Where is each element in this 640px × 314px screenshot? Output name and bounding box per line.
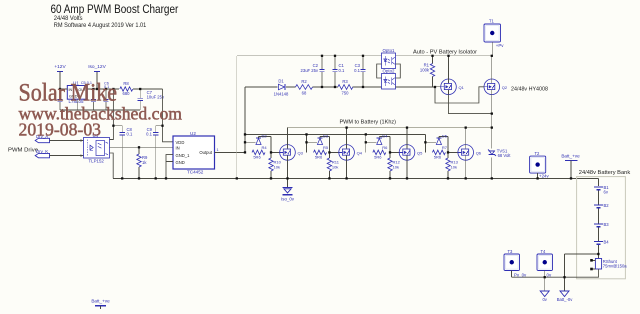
ground rail iso [60,109,140,111]
resistor R2 68 [296,79,313,96]
wire isolator output vertical [491,56,493,79]
wire source Q5 [406,160,408,178]
wire opto right loop [396,64,401,78]
svg-text:2019-08-03: 2019-08-03 [19,120,102,140]
resistor R12 10k [388,152,401,178]
gate network diode D3 [307,133,330,152]
ground Iso_0v [281,178,295,201]
ground Batt_-0v [557,254,574,302]
svg-text:Batt_+ve: Batt_+ve [91,299,110,304]
svg-text:5R6: 5R6 [434,154,442,159]
resistor R8 680 [119,86,133,92]
svg-text:100k: 100k [420,68,430,73]
resistor R7 5R6 [432,145,447,160]
wire drain bus [287,128,289,145]
resistor R3 750 [338,79,353,96]
svg-text:D3: D3 [323,133,329,138]
svg-text:75mv@150a: 75mv@150a [603,264,627,269]
wire TLP output to U2 IN [110,146,174,148]
terminal T2 +24v [530,151,550,178]
svg-text:R8: R8 [123,81,129,86]
svg-text:24/48v HY4008: 24/48v HY4008 [511,87,549,93]
svg-text:Opto1: Opto1 [383,48,396,53]
shunt RShunt 75mv@150a [590,259,627,271]
resistor R11 10k [327,152,340,178]
wire battery to shunt [598,245,600,259]
svg-text:R3: R3 [342,79,348,84]
svg-text:T1: T1 [489,19,495,24]
battery cell B4 [594,240,609,245]
svg-text:68: 68 [302,91,307,96]
svg-text:T4: T4 [541,249,547,254]
svg-text:60 Amp PWM Boost Charger: 60 Amp PWM Boost Charger [51,2,179,16]
wire drain Q5 [406,128,408,145]
gate network diode D5 [425,133,448,152]
svg-text:TLP152: TLP152 [89,158,105,163]
svg-text:U2: U2 [190,131,196,136]
connector Drv_A [35,134,49,143]
capacitor C1 0.1 [332,56,345,87]
transistor Q6 [458,145,482,161]
svg-text:RM Software 4 August 2019 Ver: RM Software 4 August 2019 Ver 1.01 [54,22,147,29]
wire gate lead Q3 [271,151,280,153]
svg-text:68 Volt: 68 Volt [498,153,512,158]
gate driver U2 TC4452 [173,131,219,175]
wire U1 input [60,88,67,90]
optocoupler U4 TLP152 [84,133,110,164]
wire gate lead Q4 [329,151,338,153]
svg-text:Output: Output [199,150,212,155]
TVS1 68 Volt [488,148,511,158]
wire drain Q6 [465,128,467,145]
svg-text:Q3: Q3 [298,151,304,156]
resistor R10 10k [269,152,282,178]
svg-text:B4: B4 [604,240,610,245]
svg-text:0v: 0v [547,273,552,278]
svg-text:Iso_12V: Iso_12V [88,64,106,70]
svg-text:10k: 10k [451,165,457,170]
svg-text:1: 1 [217,148,219,152]
wire top rail [237,55,492,57]
resistor R9 1k [137,147,148,178]
svg-text:+Pv: +Pv [496,43,504,48]
terminal T4 0v [537,249,553,278]
wire charge pump vertical [244,87,246,152]
svg-text:Auto - PV Battery Isolator: Auto - PV Battery Isolator [413,50,477,56]
wire gate lead Q6 [448,151,458,153]
wire gate lead Q5 [390,151,399,153]
svg-text:680: 680 [123,91,131,96]
wire left return vertical [236,56,238,179]
svg-text:D4: D4 [382,133,388,138]
capacitor C3 0.1 [354,56,365,87]
wire T1 to rail [491,42,493,56]
optocoupler Opto2 [382,69,396,90]
ground 0v under T4 [540,277,549,302]
resistor R6 5R6 [373,145,388,160]
svg-text:R5: R5 [323,145,329,150]
capacitor C2 23uF [301,56,325,87]
svg-text:PWM to Battery (1Khz): PWM to Battery (1Khz) [340,120,397,126]
battery cell B3 [594,222,609,227]
resistor R13 10k [446,152,459,178]
svg-text:+24v: +24v [539,174,549,179]
svg-text:0.1: 0.1 [127,132,133,137]
svg-text:Opto2: Opto2 [383,69,396,74]
wire rail 87 [245,86,278,88]
wire U1 output rail [87,88,162,90]
wire gate bus [245,133,425,135]
resistor R5 5R6 [314,145,329,160]
regulator U1 L78L05 [67,81,87,105]
wire VDD cap link [113,125,122,127]
wire battery string top [598,178,600,185]
transistor Q5 [399,145,423,161]
wire source Q6 [465,160,467,178]
svg-text:Q1: Q1 [459,85,465,90]
svg-text:10k: 10k [332,165,338,170]
svg-text:B2: B2 [604,203,610,208]
wire bottom bus [113,177,598,179]
wire VDD feed down [163,89,174,142]
svg-text:R6: R6 [382,145,388,150]
transistor Q2 HY4008 [484,79,508,95]
wire Q1 source to Q2 [449,95,492,114]
wire drain Q4 [346,128,348,145]
capacitor C9 0.1 [146,126,158,179]
watermark Solar Mike [19,78,183,140]
diode D1 1N4148 [274,79,289,97]
terminal T3 Pv_0v [504,249,527,278]
wire shunt bottom out [512,269,599,277]
resistor R1 100k [420,56,435,87]
wire drain Q3 [287,128,289,145]
svg-text:Q6: Q6 [476,151,482,156]
svg-text:T3: T3 [508,249,514,254]
capacitor C4 [57,89,62,110]
transistor Q4 [339,145,363,161]
svg-text:B3: B3 [604,222,610,227]
wire Q1 drain [448,56,450,79]
wire T3 stub [511,271,513,278]
wire U2 gnd pins [166,155,173,179]
resistor R4 5R6 [252,145,267,160]
svg-text:Q5: Q5 [417,151,423,156]
wire Drv_K to opto [50,154,84,156]
transistor Q1 [441,79,465,95]
svg-text:IN: IN [176,145,180,150]
wire source Q4 [346,160,348,178]
svg-text:R2: R2 [301,79,307,84]
battery cell B2 [594,203,609,208]
power port Iso_12V [88,64,106,89]
svg-text:R4: R4 [262,145,268,150]
wire gate rail Q1 [435,86,441,88]
svg-text:1N4148: 1N4148 [274,92,289,97]
svg-text:10k: 10k [274,165,280,170]
battery cell B1 [594,185,609,195]
wire U1 ground lead [76,99,78,110]
wire battery link [598,191,600,205]
svg-text:+12V: +12V [54,64,66,70]
svg-text:24/48v Battery Bank: 24/48v Battery Bank [579,170,630,176]
svg-text:T2: T2 [535,151,541,156]
svg-text:R7: R7 [442,145,448,150]
wire TLP ground [110,153,114,178]
svg-text:Batt_+ve: Batt_+ve [561,154,580,159]
wire T4 stub [544,271,546,278]
svg-text:Iso_0v: Iso_0v [281,196,295,201]
wire battery link [598,228,600,242]
wire TLP VCC [110,139,114,141]
capacitor C7 10uF [138,89,165,110]
terminal T1 +Pv [484,19,504,49]
wire U2 output [215,151,246,153]
svg-text:Pv_0v: Pv_0v [514,273,527,278]
svg-text:GND: GND [176,160,185,165]
gate network diode D4 [366,133,390,152]
svg-text:0.1: 0.1 [339,68,345,73]
gate network diode D2 [245,133,271,152]
svg-text:Q4: Q4 [357,151,363,156]
svg-text:PWM Drive: PWM Drive [8,148,39,154]
wire opto left loop [377,64,382,78]
wire battery minus tap [565,253,599,255]
svg-text:D5: D5 [442,133,448,138]
svg-text:Solar Mike: Solar Mike [19,78,118,107]
svg-text:TC4452: TC4452 [187,170,204,175]
wire Q1 gate link [435,87,484,103]
wire T2 stub [537,173,539,178]
wire opto2 to gates [396,86,436,88]
svg-text:10k: 10k [393,165,399,170]
svg-text:5R6: 5R6 [315,154,323,159]
wire battery link [598,209,600,224]
wire VDD branch [110,89,114,140]
svg-text:Drv_K: Drv_K [36,149,48,154]
svg-text:VDD: VDD [176,140,185,145]
wire Drv_A to opto [50,139,84,141]
svg-text:0.1: 0.1 [146,132,152,137]
power port Batt_+ve bottom [91,299,110,310]
power port +12V [54,64,66,89]
svg-text:GND_1: GND_1 [176,153,191,158]
svg-text:Batt_-0v: Batt_-0v [557,297,574,302]
connector Drv_K [35,149,49,158]
capacitor C8 0.1 [120,126,133,179]
svg-text:D2: D2 [262,133,268,138]
svg-text:D1: D1 [278,79,284,84]
svg-text:Q2: Q2 [502,85,508,90]
svg-text:23uF 25v: 23uF 25v [301,68,319,73]
capacitor C5 [81,81,96,110]
power port Batt_+ve right [561,154,580,179]
svg-text:0.1: 0.1 [354,68,360,73]
wire source Q3 [287,160,289,178]
svg-text:750: 750 [342,91,350,96]
capacitor C6 [103,82,109,111]
battery bank box [577,177,626,279]
svg-text:5R6: 5R6 [374,154,382,159]
optocoupler Opto1 [382,48,396,69]
transistor Q3 [280,145,304,161]
svg-text:5R6: 5R6 [253,154,261,159]
